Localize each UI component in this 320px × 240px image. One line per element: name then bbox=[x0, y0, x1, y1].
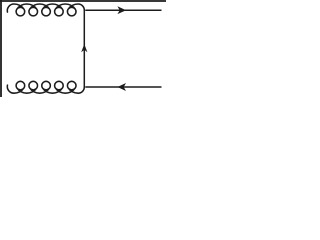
wire: quark propagator between vertices (vertical) bbox=[83, 10, 85, 87]
gluon g1 (top incoming, coil) bbox=[7, 4, 84, 16]
gluon g2 (bottom incoming, coil) bbox=[7, 81, 84, 93]
frame left border bbox=[0, 0, 2, 97]
wire: outgoing quark (top right) bbox=[85, 9, 161, 11]
arrow on vertical propagator (up) bbox=[81, 44, 87, 52]
wire: outgoing antiquark (bottom right) bbox=[85, 86, 161, 88]
arrow on top quark line (right) bbox=[117, 6, 126, 14]
arrow on bottom antiquark line (left) bbox=[117, 83, 126, 91]
frame top border bbox=[0, 0, 166, 2]
